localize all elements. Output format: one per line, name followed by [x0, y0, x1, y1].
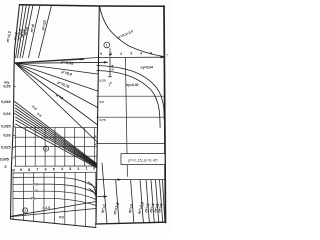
svg-text:10: 10	[11, 168, 15, 172]
svg-text:0: 0	[4, 165, 6, 169]
svg-text:3: 3	[69, 167, 71, 171]
right half horizontal gridline 2	[97, 116, 164, 118]
svg-text:σy=0,04: σy=0,04	[141, 65, 154, 69]
grid1 verticals	[16, 128, 95, 167]
svg-text:5: 5	[53, 167, 55, 171]
svg-text:0,04: 0,04	[110, 64, 114, 70]
svg-text:3: 3	[130, 52, 132, 56]
mu fan line 0,7	[15, 63, 98, 125]
svg-text:0,045: 0,045	[1, 100, 10, 104]
circled 1 top right	[104, 42, 110, 48]
formula box	[121, 154, 165, 165]
mu fan line 0,9	[15, 63, 98, 91]
circled 1 grid1	[43, 146, 48, 151]
gamma axis numbers	[100, 51, 152, 56]
right half horizontal gridline 1	[97, 95, 164, 97]
left axis	[11, 5, 20, 220]
hyperbola m'=0,1-1,0	[100, 6, 164, 56]
bottom-left slanted boundary	[11, 219, 97, 228]
steep fan labels	[6, 20, 47, 43]
svg-text:5: 5	[150, 51, 152, 55]
sigma y 0,04 curve	[97, 66, 165, 121]
grid1 horizontals	[15, 127, 97, 129]
svg-text:f=1,5: f=1,5	[43, 206, 51, 210]
right half vertical gridline	[125, 58, 127, 177]
top border	[20, 5, 165, 6]
mu fan line 0,8	[15, 63, 98, 108]
svg-text:1: 1	[110, 52, 112, 56]
svg-text:8: 8	[28, 168, 30, 172]
right border	[164, 6, 166, 223]
sigma y 0,02 curve	[97, 71, 160, 128]
svg-text:0,035: 0,035	[1, 124, 10, 128]
right half horizontal gridline bottom	[97, 179, 165, 181]
bottom numbers row	[11, 166, 95, 172]
grid2 horizontals f lines curving to corner	[13, 177, 96, 187]
svg-text:0,5: 0,5	[100, 100, 105, 104]
svg-text:0,005: 0,005	[0, 157, 9, 161]
svg-text:1: 1	[45, 147, 47, 151]
right half horizontal gridline nu	[97, 142, 165, 144]
grid2 top line	[13, 171, 96, 174]
steep fan line m'=2	[16, 5, 23, 58]
circled 2 grid2	[23, 208, 28, 213]
svg-text:f=3: f=3	[33, 182, 38, 186]
svg-text:1: 1	[86, 167, 88, 171]
svg-text:1: 1	[95, 135, 97, 139]
svg-text:7: 7	[36, 168, 38, 172]
short right arrow bottom	[98, 196, 107, 198]
T bundle lines	[15, 102, 97, 164]
steep fan line m'=2,5	[18, 5, 27, 58]
transition arcs bottom center	[88, 182, 96, 194]
svg-text:4: 4	[140, 52, 142, 56]
svg-text:β=0,15;Δ=0,45: β=0,15;Δ=0,45	[127, 157, 158, 162]
arrowheads	[81, 56, 165, 198]
svg-text:9: 9	[20, 168, 22, 172]
bottom-right border	[96, 222, 166, 224]
arrow line mid	[15, 59, 84, 63]
svg-text:0,25: 0,25	[100, 78, 106, 82]
mu fan line lowest	[15, 63, 98, 143]
f labels grid2	[31, 182, 64, 219]
svg-text:0,75: 0,75	[100, 118, 106, 122]
svg-text:f=1: f=1	[31, 197, 36, 201]
my axis ticks	[13, 86, 16, 158]
steep fan line m'=6	[29, 5, 41, 57]
svg-text:2: 2	[24, 209, 26, 213]
mu fan line 0,95	[15, 63, 98, 74]
bottom m' fan labels	[100, 201, 164, 216]
svg-text:0,025: 0,025	[1, 145, 10, 149]
bottom-right m' fan lines	[102, 163, 107, 224]
grid2 fan lines	[11, 202, 96, 217]
down arrow below circled 1	[109, 49, 111, 56]
steep fan line m'=4	[23, 5, 34, 58]
arrow line lower	[15, 62, 108, 63]
my axis labels	[0, 81, 11, 169]
svg-text:0,04: 0,04	[3, 112, 11, 116]
steep fan line m'=3	[20, 5, 30, 58]
mini axis 0,04	[109, 58, 111, 77]
svg-text:0: 0	[100, 52, 102, 56]
grid2 verticals	[13, 172, 96, 227]
svg-text:2: 2	[77, 167, 79, 171]
gamma axis line	[15, 57, 164, 63]
mu fan labels	[55, 60, 75, 100]
right tick labels	[100, 78, 106, 122]
steep fan line m'=10	[39, 5, 52, 57]
svg-text:6: 6	[45, 168, 47, 172]
svg-text:f=2: f=2	[33, 189, 38, 193]
svg-text:2: 2	[120, 52, 122, 56]
svg-text:σy=0,02: σy=0,02	[126, 83, 139, 87]
svg-text:0,05: 0,05	[3, 85, 10, 89]
svg-text:f=3: f=3	[59, 216, 64, 220]
svg-text:v: v	[94, 142, 96, 146]
center vertical axis	[96, 6, 99, 223]
svg-text:0,03: 0,03	[3, 134, 10, 138]
svg-text:0: 0	[93, 166, 95, 170]
